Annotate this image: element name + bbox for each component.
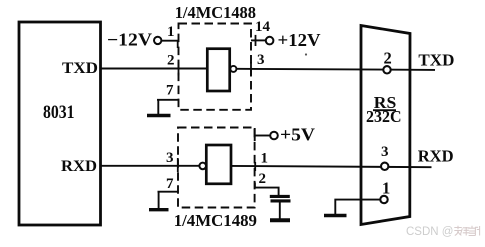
buffer gate U3 output bubble xyxy=(199,163,206,170)
ground bar (U3 pin7) xyxy=(149,208,169,211)
wire RXD from connector pin 3 to U3 input xyxy=(231,166,432,167)
IC U1 8031 box xyxy=(19,22,101,225)
svg-text:CSDN @: CSDN @ xyxy=(406,226,453,238)
svg-text:1/4MC1488: 1/4MC1488 xyxy=(175,3,256,22)
capacitor C1 lower lead xyxy=(279,203,281,219)
svg-text:3: 3 xyxy=(166,150,174,166)
svg-text:3: 3 xyxy=(381,144,389,160)
svg-text:7: 7 xyxy=(166,82,174,98)
IC U3 1/4MC1489 dashed box xyxy=(178,128,255,208)
pin 3 tick (U3 output) xyxy=(177,158,179,172)
svg-text:2: 2 xyxy=(167,53,175,69)
wire TXD from 8031 to U2 input xyxy=(101,68,208,70)
capacitor C1 bottom plate xyxy=(271,199,291,202)
pin 3 tick (U2 output) xyxy=(250,62,252,76)
pin 1 wire (U2 VEE) xyxy=(162,40,179,42)
pin 1 tick xyxy=(177,41,179,48)
pin 14 wire to terminal (U3) xyxy=(255,135,270,137)
terminal +5V circle xyxy=(270,132,278,140)
svg-text:232C: 232C xyxy=(366,107,402,126)
svg-text:TXD: TXD xyxy=(62,60,98,77)
svg-text:−12V: −12V xyxy=(107,29,152,49)
pin 7 wire (U2 GND) xyxy=(157,99,179,101)
capacitor C1 top plate xyxy=(270,195,290,198)
svg-text:1: 1 xyxy=(382,179,390,198)
wire pin 1 to ground xyxy=(335,200,380,214)
connector pin 1 circle xyxy=(380,196,387,203)
IC U2 1/4MC1488 dashed box xyxy=(179,24,252,110)
pin 14 wire (U3 VCC +5V) xyxy=(254,128,256,141)
ground bar (U2 pin7) xyxy=(147,114,171,117)
svg-text:2: 2 xyxy=(384,48,392,67)
svg-text:+5V: +5V xyxy=(280,125,315,145)
buffer gate U3 body xyxy=(206,145,231,184)
svg-text:1: 1 xyxy=(261,150,269,166)
terminal -12V circle xyxy=(154,37,161,44)
svg-text:2: 2 xyxy=(259,171,267,187)
pin 2 tick (U2 input) xyxy=(178,62,180,76)
svg-text:14: 14 xyxy=(255,19,271,35)
svg-text:7: 7 xyxy=(166,176,174,192)
svg-text:3: 3 xyxy=(257,52,265,68)
connector J1 RS-232C shell xyxy=(361,26,410,225)
svg-text:+12V: +12V xyxy=(278,30,321,50)
svg-text:RXD: RXD xyxy=(61,158,97,175)
pin 14 tick xyxy=(255,35,257,46)
pin 7 wire (U3 GND) xyxy=(158,191,179,193)
terminal +12V circle xyxy=(266,37,274,45)
svg-text:TXD: TXD xyxy=(418,51,454,70)
svg-text:1: 1 xyxy=(167,24,175,40)
connector pin 2 circle xyxy=(383,66,390,73)
svg-text:8031: 8031 xyxy=(43,102,75,123)
pin 1 tick (U3 input) xyxy=(254,162,256,171)
ground bar (C1) xyxy=(270,218,290,222)
ground bar (J1 pin1) xyxy=(324,214,347,218)
ground lead (U3 pin7) xyxy=(158,192,160,209)
label RS underline xyxy=(373,109,396,111)
buffer gate U2 output bubble xyxy=(230,66,236,72)
wire RXD from U3 output to 8031 xyxy=(101,165,200,167)
connector pin 3 circle xyxy=(381,163,388,170)
buffer gate U2 body xyxy=(207,49,229,91)
ink speck xyxy=(305,53,307,55)
pin 2 wire (U3 response control) xyxy=(255,183,279,196)
svg-text:RXD: RXD xyxy=(418,146,454,165)
svg-text:1/4MC1489: 1/4MC1489 xyxy=(174,211,257,230)
pin 14 wire (U2 VCC) xyxy=(251,39,265,41)
watermark chinese glyphs xyxy=(454,226,479,236)
ground lead (U2 pin7) xyxy=(157,100,159,115)
wire TXD from U2 output to connector pin 2 xyxy=(237,69,436,70)
